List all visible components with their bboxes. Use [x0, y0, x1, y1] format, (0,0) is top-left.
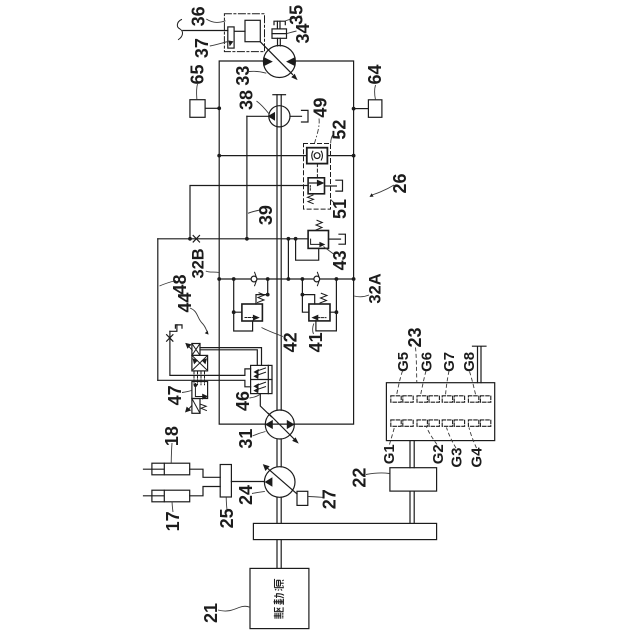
svg-text:23: 23 — [405, 327, 425, 347]
svg-text:17: 17 — [163, 511, 183, 531]
svg-text:49: 49 — [310, 98, 330, 118]
svg-text:27: 27 — [320, 489, 340, 509]
svg-text:G5: G5 — [395, 352, 412, 372]
svg-text:52: 52 — [329, 120, 349, 140]
svg-text:46: 46 — [233, 391, 253, 411]
svg-text:65: 65 — [188, 64, 208, 84]
svg-text:G6: G6 — [418, 352, 435, 372]
svg-text:G3: G3 — [449, 448, 466, 468]
svg-text:33: 33 — [233, 66, 253, 86]
svg-text:37: 37 — [192, 38, 212, 58]
svg-text:41: 41 — [306, 332, 326, 352]
svg-text:G4: G4 — [469, 447, 486, 468]
svg-text:18: 18 — [162, 426, 182, 446]
svg-text:34: 34 — [293, 23, 313, 43]
svg-text:31: 31 — [236, 429, 256, 449]
svg-text:25: 25 — [217, 508, 237, 528]
svg-text:G1: G1 — [381, 444, 398, 464]
svg-text:36: 36 — [189, 6, 209, 26]
svg-text:64: 64 — [365, 64, 385, 84]
svg-text:26: 26 — [390, 173, 410, 193]
svg-text:21: 21 — [201, 603, 221, 623]
svg-text:44: 44 — [175, 292, 195, 312]
svg-text:24: 24 — [236, 485, 256, 505]
svg-text:38: 38 — [237, 90, 257, 110]
svg-text:47: 47 — [165, 385, 185, 405]
svg-text:G8: G8 — [461, 352, 478, 372]
svg-text:48: 48 — [170, 274, 190, 294]
svg-text:35: 35 — [287, 5, 307, 25]
svg-text:22: 22 — [349, 468, 369, 488]
svg-text:43: 43 — [330, 250, 350, 270]
svg-text:32A: 32A — [367, 273, 385, 303]
svg-text:51: 51 — [330, 199, 350, 219]
svg-text:39: 39 — [256, 205, 276, 225]
svg-text:32B: 32B — [190, 248, 208, 278]
svg-text:G2: G2 — [430, 444, 447, 464]
svg-text:G7: G7 — [441, 352, 458, 372]
svg-text:42: 42 — [281, 332, 301, 352]
